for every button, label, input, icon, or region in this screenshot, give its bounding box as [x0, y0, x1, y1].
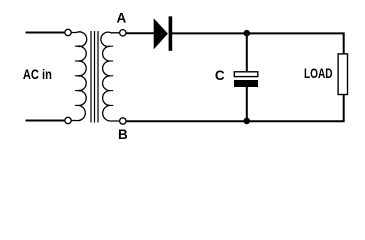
transformer T1 primary winding cusp ticks	[75, 46, 78, 105]
junction dot top	[244, 30, 251, 37]
transformer T1 secondary winding	[101, 32, 120, 121]
wire bottom rail B to load	[126, 95, 344, 121]
capacitor C positive plate	[234, 72, 257, 77]
svg-text:AC in: AC in	[23, 67, 52, 82]
transformer T1 secondary winding cusp ticks	[110, 46, 113, 105]
svg-text:A: A	[117, 10, 127, 25]
wire top rail diode to load	[172, 33, 344, 53]
diode D1 cathode bar	[169, 16, 173, 51]
transformer T1 core	[91, 31, 98, 123]
wire primary bottom	[26, 120, 65, 122]
svg-text:C: C	[215, 68, 225, 83]
junction dot bottom	[244, 118, 251, 125]
capacitor C negative plate	[234, 80, 258, 87]
transformer T1 primary terminal bottom	[65, 117, 71, 123]
wire capacitor bottom lead	[246, 87, 248, 121]
resistor LOAD box	[338, 54, 347, 95]
wire capacitor top lead	[246, 33, 248, 71]
transformer T1 primary terminal top	[65, 29, 71, 35]
diode D1 anode triangle	[154, 18, 168, 49]
transformer T1 secondary terminal bottom (node B)	[120, 118, 126, 124]
svg-text:B: B	[118, 127, 128, 142]
transformer T1 secondary terminal top (node A)	[120, 30, 126, 36]
wire A to diode	[126, 32, 155, 34]
svg-text:LOAD: LOAD	[304, 66, 333, 81]
transformer T1 primary winding	[71, 32, 87, 121]
wire primary top	[26, 32, 65, 34]
